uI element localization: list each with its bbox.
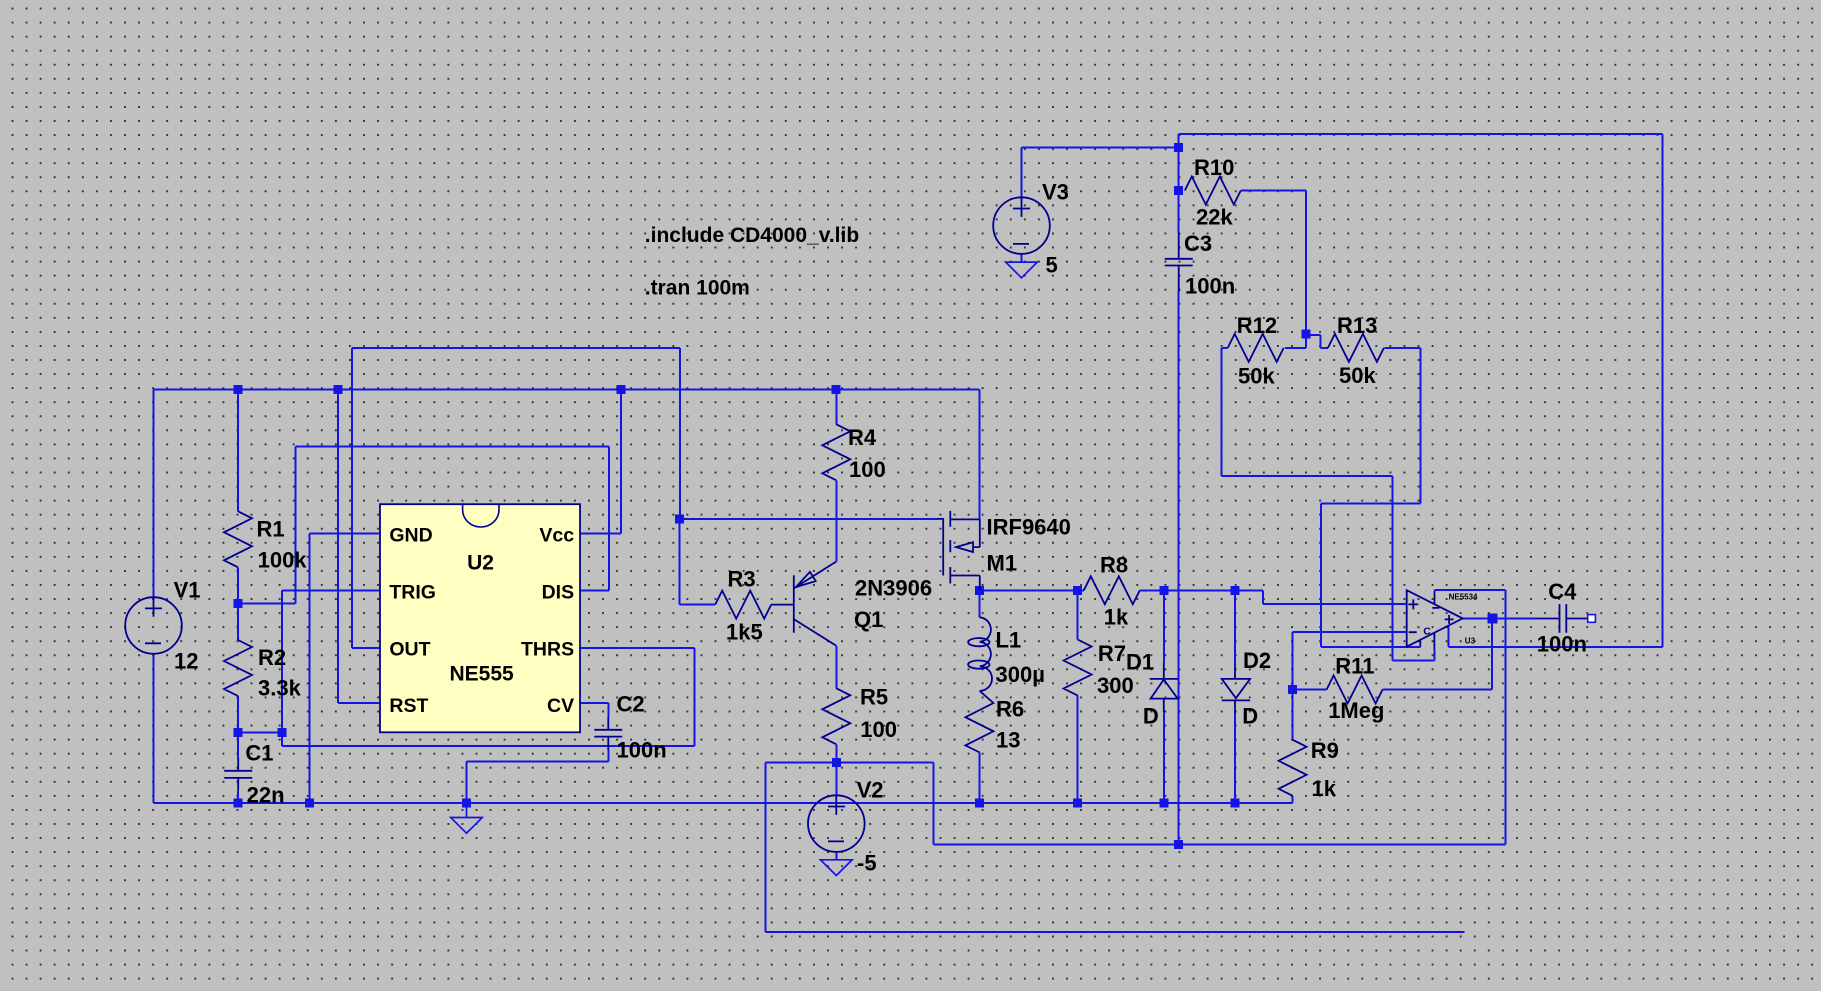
svg-text:.tran 100m: .tran 100m <box>645 277 750 300</box>
svg-text:D: D <box>1143 704 1159 729</box>
svg-text:22k: 22k <box>1196 205 1233 230</box>
svg-text:D2: D2 <box>1243 648 1271 673</box>
svg-text:THRS: THRS <box>521 638 574 660</box>
svg-text:D: D <box>1242 704 1258 729</box>
svg-text:V3: V3 <box>1042 180 1069 205</box>
svg-text:Vcc: Vcc <box>539 524 574 546</box>
svg-text:GND: GND <box>389 524 432 546</box>
svg-text:CV: CV <box>547 695 574 717</box>
svg-text:100n: 100n <box>1185 274 1235 299</box>
svg-text:R8: R8 <box>1100 553 1128 578</box>
svg-text:R13: R13 <box>1337 313 1377 338</box>
svg-text:U2: U2 <box>467 552 494 575</box>
svg-text:3.3k: 3.3k <box>258 676 302 701</box>
svg-text:R7: R7 <box>1098 641 1126 666</box>
svg-text:NE5534: NE5534 <box>1449 592 1478 601</box>
svg-text:OUT: OUT <box>389 638 430 660</box>
svg-text:100k: 100k <box>258 548 308 573</box>
svg-text:L1: L1 <box>996 628 1022 653</box>
svg-text:1k: 1k <box>1104 605 1129 630</box>
svg-text:C3: C3 <box>1184 231 1212 256</box>
svg-text:5: 5 <box>1046 253 1058 278</box>
svg-text:Q1: Q1 <box>854 607 883 632</box>
svg-text:C: C <box>1423 626 1431 638</box>
svg-text:100n: 100n <box>617 738 667 763</box>
svg-text:R1: R1 <box>257 517 285 542</box>
svg-text:R2: R2 <box>258 645 286 670</box>
svg-text:C1: C1 <box>245 741 273 766</box>
svg-text:R12: R12 <box>1237 313 1277 338</box>
svg-text:50k: 50k <box>1238 364 1275 389</box>
svg-text:DIS: DIS <box>542 581 575 603</box>
svg-text:1k: 1k <box>1312 776 1337 801</box>
svg-text:R10: R10 <box>1194 155 1234 180</box>
svg-text:R9: R9 <box>1311 738 1339 763</box>
svg-text:V2: V2 <box>857 778 884 803</box>
svg-text:2N3906: 2N3906 <box>855 576 932 601</box>
svg-text:50k: 50k <box>1339 363 1376 388</box>
svg-text:100n: 100n <box>1537 632 1587 657</box>
svg-text:U3: U3 <box>1465 637 1476 646</box>
svg-text:12: 12 <box>174 649 198 674</box>
svg-text:100: 100 <box>860 717 897 742</box>
svg-text:R5: R5 <box>860 685 888 710</box>
svg-text:R6: R6 <box>996 697 1024 722</box>
svg-text:13: 13 <box>996 728 1020 753</box>
svg-text:1k5: 1k5 <box>726 620 763 645</box>
svg-text:TRIG: TRIG <box>389 581 436 603</box>
svg-text:R4: R4 <box>848 425 877 450</box>
svg-text:22n: 22n <box>247 783 285 808</box>
svg-text:RST: RST <box>389 695 428 717</box>
svg-text:M1: M1 <box>987 551 1018 576</box>
svg-text:100: 100 <box>849 457 886 482</box>
svg-text:IRF9640: IRF9640 <box>987 515 1071 540</box>
svg-text:V1: V1 <box>174 578 201 603</box>
svg-text:C4: C4 <box>1548 579 1577 604</box>
svg-text:D1: D1 <box>1126 650 1154 675</box>
svg-text:300µ: 300µ <box>996 662 1045 687</box>
svg-text:NE555: NE555 <box>450 663 515 686</box>
svg-text:C2: C2 <box>617 692 645 717</box>
svg-text:1Meg: 1Meg <box>1328 698 1384 723</box>
svg-text:-5: -5 <box>857 851 877 876</box>
svg-text:R11: R11 <box>1335 654 1374 679</box>
svg-text:.include CD4000_v.lib: .include CD4000_v.lib <box>645 224 859 247</box>
svg-text:300: 300 <box>1097 673 1134 698</box>
svg-text:R3: R3 <box>728 567 756 592</box>
